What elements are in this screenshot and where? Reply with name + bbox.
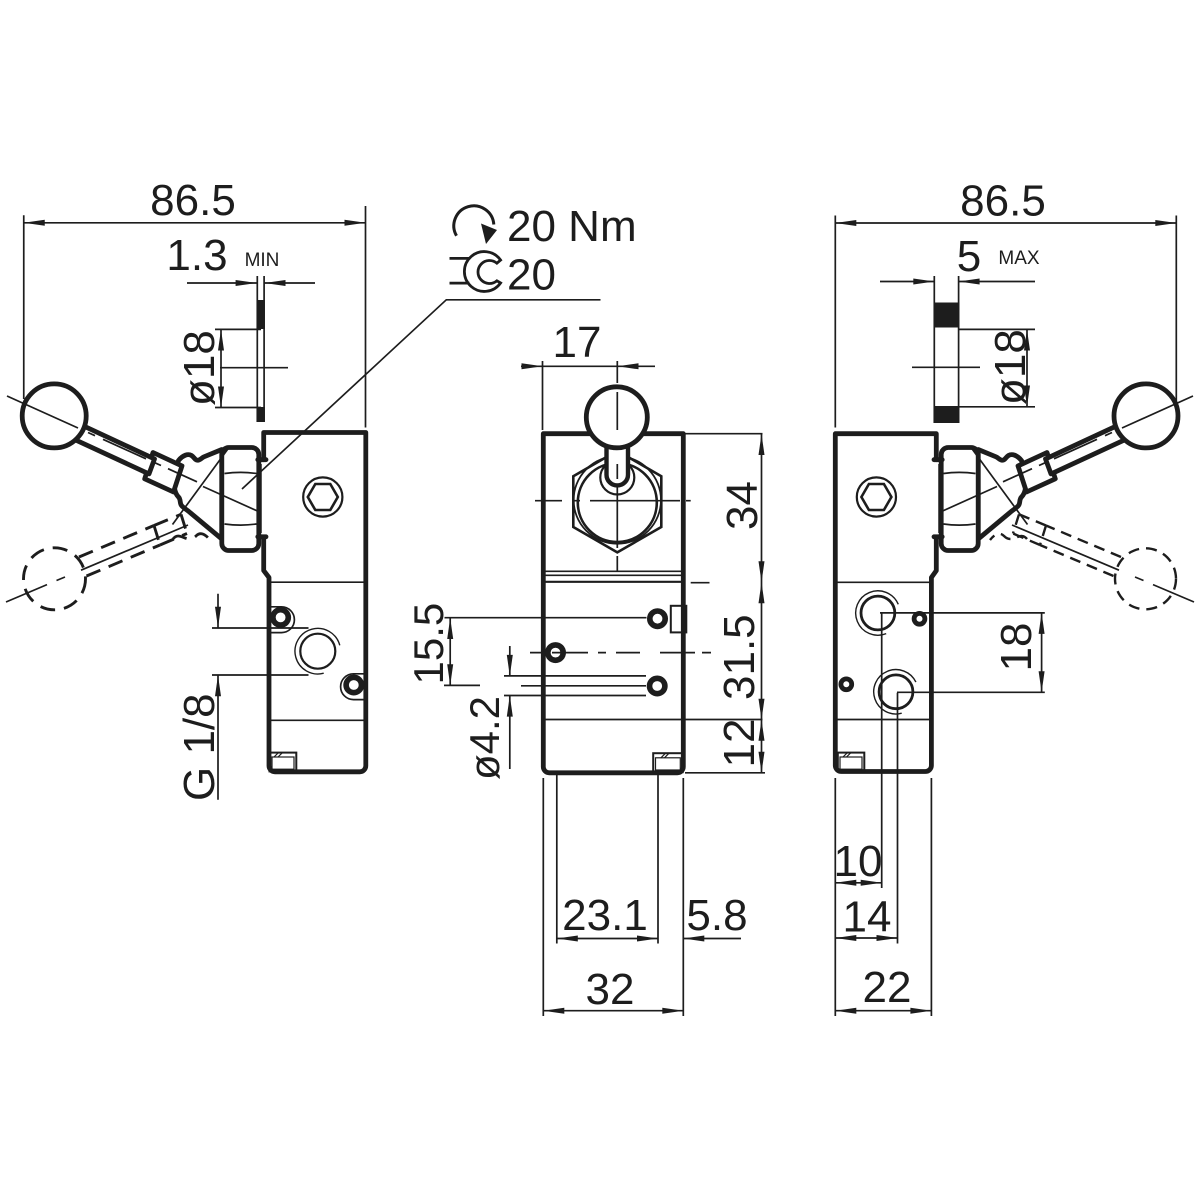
DIMENSIONS [24, 176, 1177, 1016]
port 3 small [548, 645, 563, 660]
svg-text:ø18: ø18 [986, 329, 1035, 405]
port boss bottom [341, 674, 364, 700]
lever down position (dashed) shaft right [1040, 526, 1121, 577]
port boss top [269, 607, 294, 633]
lever sleeve right [1018, 453, 1055, 493]
horizontal centerline through port 3 [530, 652, 711, 654]
nut facet line upper right [944, 472, 976, 473]
svg-text:MAX: MAX [998, 248, 1040, 269]
nut circle inner [578, 463, 657, 542]
port R2 thread arc [874, 670, 916, 714]
MIDDLE VIEW [530, 361, 711, 773]
svg-text:MIN: MIN [245, 250, 280, 271]
lever down position (dashed) ball [24, 548, 86, 610]
lever sleeve [145, 453, 182, 493]
dim dia18 left [175, 329, 288, 407]
port R1 thread arc [856, 591, 899, 635]
svg-text:20 Nm: 20 Nm [507, 202, 637, 251]
mounting slot hatched mid [653, 753, 683, 772]
lever down position (dashed) sleeve right [1013, 514, 1046, 545]
body section line right [835, 719, 931, 721]
shim strip left [257, 276, 265, 422]
toggle ball [586, 387, 647, 448]
ICONS [450, 202, 637, 300]
hex socket hexagon right [861, 484, 891, 510]
body section line [269, 719, 366, 721]
horizontal centerline through nut [535, 500, 691, 502]
toggle stem [607, 444, 629, 485]
svg-text:5: 5 [957, 232, 981, 281]
svg-text:20: 20 [507, 251, 556, 300]
dim dia18 right [912, 329, 1035, 407]
retaining lip top right [934, 457, 942, 462]
svg-text:G 1/8: G 1/8 [175, 693, 224, 801]
cover joint line right [835, 581, 931, 583]
vertical centerline [616, 361, 618, 571]
rubber boot / cone right [978, 450, 1026, 540]
dim 1.3 MIN [166, 231, 315, 286]
cover joint lines [543, 571, 683, 575]
lever down position (dashed) ball right [1115, 548, 1176, 609]
LEFT VIEW [6, 384, 366, 772]
port R1 big [861, 596, 895, 630]
svg-text:1.3: 1.3 [166, 231, 227, 280]
lever down position (dashed) sleeve [154, 514, 187, 545]
washer line [260, 464, 262, 533]
cross mark on nut [173, 450, 259, 525]
lever shaft right [1046, 423, 1129, 474]
dim 17 [521, 318, 655, 430]
cross mark on nut right [942, 450, 1028, 525]
port G1/8 circle [300, 634, 335, 669]
dim 10 / 14 / 22 [834, 613, 932, 1016]
lever ball knob right [1114, 384, 1178, 448]
lever axis centerline right [1003, 396, 1193, 482]
svg-text:34: 34 [718, 481, 767, 530]
rubber boot / cone of toggle unit [174, 450, 222, 540]
axis line of dashed lever [6, 525, 188, 602]
hex socket screw circle [303, 477, 342, 516]
shim strip right [934, 276, 960, 423]
nut facet line upper [225, 472, 257, 473]
retaining lip bottom right [934, 534, 942, 539]
hex nut right [941, 448, 978, 551]
port top small [273, 610, 288, 625]
port bottom small [346, 677, 361, 692]
retaining lip bottom [258, 534, 266, 539]
axis line of dashed lever right [1012, 525, 1194, 602]
svg-text:10: 10 [834, 837, 883, 886]
hex socket screw circle right [857, 477, 896, 516]
hex nut of toggle unit [222, 448, 259, 551]
valve body (side right) [835, 434, 936, 772]
port 1 small [650, 611, 665, 626]
dim 86.5 left [24, 176, 366, 428]
svg-text:15.5: 15.5 [405, 603, 452, 685]
torque rotation arrow icon [454, 206, 497, 244]
valve body (front) [543, 434, 683, 773]
hex nut front [573, 451, 661, 553]
svg-text:86.5: 86.5 [150, 176, 236, 225]
svg-text:5.8: 5.8 [686, 891, 747, 940]
dim 86.5 right [835, 177, 1176, 428]
port G1/8 thread arc [295, 628, 340, 674]
svg-text:ø4.2: ø4.2 [461, 696, 508, 780]
mounting slot hatched right [838, 753, 865, 772]
manual override slot [671, 606, 687, 633]
dashed boot hint right [990, 534, 1027, 540]
port R2 big [879, 675, 913, 709]
lever shaft [71, 423, 154, 474]
dim dia4.2 [461, 646, 646, 780]
svg-text:18: 18 [992, 623, 1041, 672]
svg-text:14: 14 [843, 893, 892, 942]
valve body (side) [264, 433, 366, 772]
svg-text:32: 32 [586, 965, 635, 1014]
svg-text:17: 17 [553, 318, 602, 367]
stem center dash [616, 464, 618, 479]
svg-text:22: 22 [863, 963, 912, 1012]
retaining lip top [258, 457, 266, 462]
dim 23.1 / 5.8 [557, 773, 748, 944]
nut facet line lower right [944, 524, 976, 525]
port small right top [914, 613, 925, 624]
cover joint line [269, 581, 366, 583]
svg-text:31.5: 31.5 [715, 614, 764, 700]
svg-text:86.5: 86.5 [960, 177, 1046, 226]
dim 15.5 [405, 603, 647, 686]
nut circle outer [574, 456, 661, 543]
svg-text:ø18: ø18 [175, 330, 224, 406]
lever ball knob [22, 384, 86, 448]
hex socket hexagon [308, 484, 338, 510]
nut facet line lower [225, 524, 257, 525]
dim 34 / 31.5 / 12 [543, 434, 767, 773]
dim 32 [543, 778, 683, 1016]
lever axis centerline [7, 396, 197, 482]
port 2 small [650, 678, 665, 693]
svg-text:23.1: 23.1 [562, 891, 648, 940]
leader line to nut [242, 300, 601, 489]
wrench icon [450, 252, 501, 292]
RIGHT VIEW [835, 384, 1194, 772]
svg-text:12: 12 [715, 719, 764, 768]
mounting slot hatched [270, 753, 297, 772]
washer line right [938, 464, 940, 533]
dim 18 [880, 613, 1045, 692]
dim G 1/8 [175, 594, 309, 801]
dashed boot hint [173, 534, 210, 540]
dim 5 MAX [880, 232, 1040, 285]
port small left low [841, 679, 852, 690]
lever down position (dashed) shaft [79, 526, 160, 577]
stem pivot circle [600, 461, 634, 495]
